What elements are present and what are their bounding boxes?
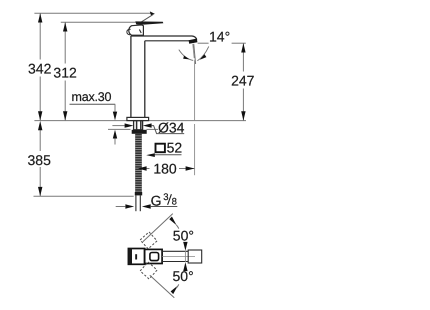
lever boss (pivot cube): [129, 25, 144, 35]
arrow 180 left (points left): [138, 166, 147, 170]
dimension line 247 vertical: [242, 43, 244, 71]
50deg top leader diagonal: [143, 214, 173, 242]
svg-text:Ø34: Ø34: [158, 119, 185, 135]
max.30 arrow up to counter bottom: [113, 130, 117, 139]
G3/8 leader line left: [116, 206, 126, 208]
faucet lever raised position line: [137, 15, 153, 25]
rod end cap: [135, 192, 142, 195]
supply tube left edge: [135, 195, 137, 211]
spout center line: [162, 256, 195, 258]
counter bottom line right: [147, 128, 159, 130]
spray arc right arrowhead: [200, 54, 207, 60]
spout underside: [145, 40, 190, 42]
arrow 385 bottom (down): [38, 187, 42, 196]
boss left ring arc: [127, 29, 131, 34]
extension line top (lever max height): [34, 12, 152, 14]
rotated handle position top (dashed): [140, 232, 157, 249]
svg-text:247: 247: [231, 73, 255, 89]
spout tube top edge: [162, 250, 188, 252]
G3/8 underline: [151, 206, 178, 208]
arrow Ø34 right (points left): [143, 123, 152, 127]
spray line secondary: [193, 44, 194, 58]
arrow 342 bottom (down): [38, 111, 42, 120]
mounting washer (dark): [132, 130, 147, 134]
dimension line 312 vertical: [64, 22, 66, 63]
extension line second (lever rest height): [61, 21, 136, 23]
svg-text:G: G: [151, 192, 162, 208]
50deg bottom leader diagonal: [150, 275, 175, 298]
max.30 leader vertical: [114, 104, 116, 112]
14 deg reference line right segment: [232, 42, 246, 44]
arrow 180 right (points right): [186, 166, 195, 170]
threaded rod: [135, 134, 142, 192]
counter bottom line left: [108, 128, 131, 130]
handle cube outline: [128, 249, 144, 265]
faucet body top and spout outline: [131, 36, 197, 40]
spout end box: [188, 250, 202, 263]
50deg bottom arc arrowhead: [171, 286, 178, 295]
arrow 247 top (up): [241, 43, 245, 52]
rotated handle position bottom (dashed): [140, 262, 157, 279]
counter top line: [34, 120, 246, 122]
50deg bottom tube arrowhead (up): [183, 262, 187, 271]
svg-text:52: 52: [167, 140, 183, 156]
svg-text:312: 312: [53, 65, 77, 81]
spray arc right: [197, 46, 208, 60]
arrow at end of top line pointing right to raised lever: [150, 11, 155, 15]
14 deg reference line left segment: [198, 42, 209, 44]
rod visible inside shank left edge: [136, 121, 138, 130]
dimension line 342/385 vertical: [39, 13, 41, 59]
faucet column left edge: [130, 36, 132, 118]
handle cube left face (dark): [128, 249, 132, 265]
svg-text:342: 342: [28, 61, 52, 77]
spout tip extension line upper: [194, 60, 196, 120]
square symbol for 52: [156, 144, 165, 153]
50deg top arc tail: [176, 225, 179, 229]
spray arc left arrowhead: [183, 56, 189, 60]
arrow Ø34 left (points right): [125, 123, 134, 127]
max.30 arrow down to counter top: [113, 112, 117, 121]
handle cube inner tick: [135, 254, 137, 259]
50deg top tube arrow segment: [184, 242, 186, 246]
hose end reference line: [34, 195, 134, 197]
dimension line 180: [138, 168, 150, 170]
max.30 underline: [70, 103, 116, 105]
fraction slash: [168, 194, 172, 205]
svg-text:180: 180: [153, 160, 177, 176]
body cube outline: [145, 249, 163, 263]
arrow 312 bottom (down): [63, 111, 67, 120]
svg-text:max.30: max.30: [72, 90, 112, 104]
max.30 lower tail: [114, 139, 116, 145]
50deg top tube arrowhead (down): [183, 242, 187, 251]
svg-text:50°: 50°: [173, 268, 194, 284]
faucet lever bar: [135, 21, 163, 24]
cartridge rounded square: [150, 253, 159, 261]
spout tip extension line lower: [194, 124, 196, 175]
dimension 385 lower segment: [39, 130, 41, 151]
faucet column right edge: [144, 41, 146, 118]
svg-text:3: 3: [163, 192, 168, 203]
50deg axis line crossing tube: [184, 251, 186, 262]
50deg top arc arrowhead: [169, 217, 176, 226]
shank below counter: [134, 121, 143, 130]
arrow 342 top (up): [38, 13, 42, 22]
G3/8 arrow left (points right): [125, 204, 134, 208]
svg-text:50°: 50°: [173, 228, 194, 244]
rod visible inside shank right edge: [140, 121, 142, 130]
aerator (dark): [189, 39, 198, 44]
arrow 247 bottom (down): [241, 111, 245, 120]
spray line main: [194, 44, 196, 64]
svg-text:385: 385: [28, 152, 52, 168]
G3/8 arrow right (points left): [142, 204, 151, 208]
dimension Ø34 line left: [112, 125, 124, 127]
supply tube right edge: [139, 195, 141, 211]
svg-text:8: 8: [172, 197, 177, 208]
50deg bottom arc tail: [176, 284, 179, 288]
arrow 312 top (up): [63, 22, 67, 31]
arrow 385 top (up, below counter): [38, 121, 42, 130]
spray arc left: [179, 50, 193, 61]
svg-text:14°: 14°: [209, 29, 230, 45]
52 underline: [155, 154, 182, 156]
Ø34 leader: [152, 126, 185, 134]
50deg bottom tube arrow segment: [184, 267, 186, 271]
threaded rod ribs: [135, 136, 142, 191]
base flange: [127, 117, 149, 120]
52 leader arrow (points left at rod): [146, 153, 155, 157]
spout tube bottom edge: [162, 261, 188, 263]
boss inner tick: [139, 30, 141, 34]
